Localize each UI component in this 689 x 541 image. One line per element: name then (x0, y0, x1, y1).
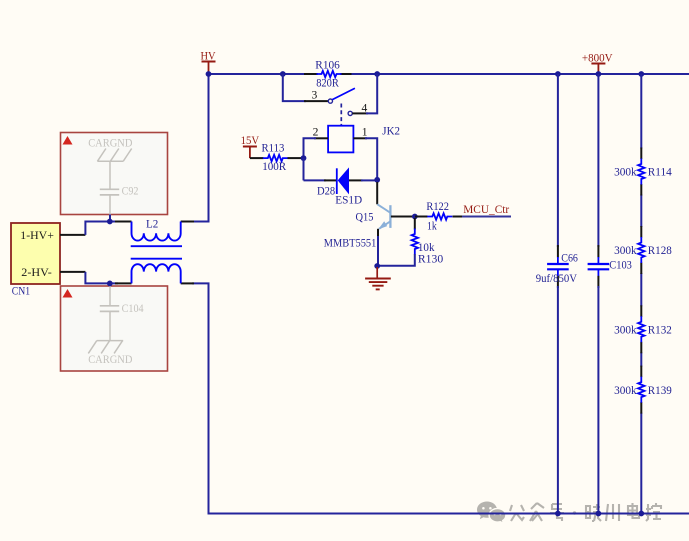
svg-text:R132: R132 (648, 324, 672, 337)
svg-text:CN1: CN1 (12, 285, 30, 298)
svg-text:L2: L2 (146, 218, 158, 231)
svg-text:C92: C92 (122, 184, 139, 197)
svg-text:HV: HV (201, 50, 217, 63)
svg-text:R130: R130 (418, 253, 444, 266)
svg-text:300k: 300k (614, 166, 637, 179)
svg-text:R114: R114 (648, 166, 672, 179)
svg-text:1k: 1k (427, 220, 437, 233)
svg-text:MCU_Ctr: MCU_Ctr (463, 203, 509, 216)
svg-text:300k: 300k (614, 244, 637, 257)
svg-text:MMBT5551: MMBT5551 (324, 237, 377, 250)
svg-text:R106: R106 (315, 59, 340, 72)
svg-text:300k: 300k (614, 324, 637, 337)
svg-text:1: 1 (362, 126, 368, 139)
svg-text:2-HV-: 2-HV- (21, 265, 51, 279)
svg-text:ES1D: ES1D (335, 194, 362, 207)
svg-text:15V: 15V (241, 134, 260, 147)
svg-text:JK2: JK2 (382, 125, 400, 138)
svg-text:CARGND: CARGND (88, 353, 132, 366)
svg-text:CARGND: CARGND (88, 136, 132, 149)
svg-text:100R: 100R (262, 160, 286, 173)
svg-text:R113: R113 (262, 142, 285, 155)
svg-text:9uf/850V: 9uf/850V (536, 272, 578, 285)
svg-text:4: 4 (362, 102, 368, 115)
svg-text:D28: D28 (317, 185, 335, 198)
svg-text:R122: R122 (426, 200, 449, 213)
svg-text:Q15: Q15 (356, 211, 374, 224)
svg-text:2: 2 (313, 126, 319, 139)
svg-text:R139: R139 (648, 384, 672, 397)
svg-text:3: 3 (312, 89, 318, 102)
svg-text:C66: C66 (561, 252, 578, 265)
svg-text:820R: 820R (316, 76, 339, 89)
svg-text:+800V: +800V (582, 52, 613, 65)
svg-text:R128: R128 (648, 244, 672, 257)
svg-text:1-HV+: 1-HV+ (20, 228, 54, 242)
svg-text:300k: 300k (614, 384, 637, 397)
svg-text:C104: C104 (122, 302, 144, 315)
svg-text:C103: C103 (609, 258, 632, 271)
